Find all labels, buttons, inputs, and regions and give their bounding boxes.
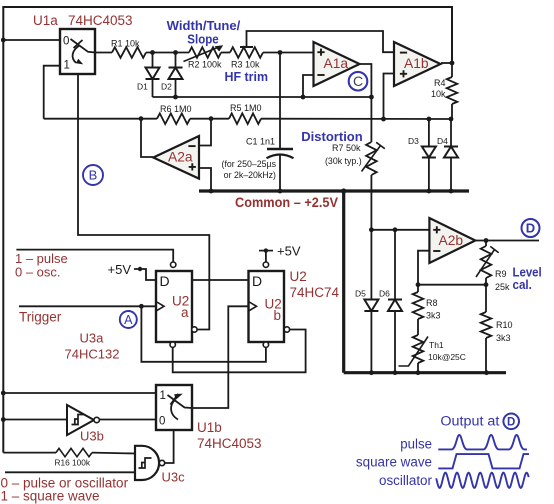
wire U3c output to U1b select xyxy=(165,430,174,463)
wire feedback loop from A1b output: top and left border xyxy=(3,7,452,453)
svg-text:R1 10k: R1 10k xyxy=(111,39,140,49)
svg-text:C1 1n1: C1 1n1 xyxy=(246,137,275,147)
wire A1a output down to R7 xyxy=(360,64,371,142)
svg-text:1 – square wave: 1 – square wave xyxy=(1,489,100,504)
svg-text:D2: D2 xyxy=(161,82,172,92)
svg-text:B: B xyxy=(89,168,98,183)
svg-text:a: a xyxy=(181,305,189,320)
svg-text:25k: 25k xyxy=(495,282,510,292)
svg-text:square wave: square wave xyxy=(356,455,432,470)
svg-text:U1a: U1a xyxy=(33,13,58,28)
diode D3 xyxy=(428,119,430,147)
main integrator line R6 R5 xyxy=(44,118,157,120)
svg-text:R3 10k: R3 10k xyxy=(231,60,260,70)
svg-text:R9: R9 xyxy=(495,269,507,279)
svg-text:U3b: U3b xyxy=(80,429,104,444)
wire A1b output xyxy=(441,62,452,64)
variable resistor R7 xyxy=(366,142,377,175)
node D2 top xyxy=(173,50,178,55)
svg-text:cal.: cal. xyxy=(513,277,532,292)
junction R6/R5 A2a inverting xyxy=(209,116,214,121)
wire A2a noninverting to common xyxy=(199,168,211,191)
resistor R8 xyxy=(417,285,419,292)
svg-text:1: 1 xyxy=(64,60,70,72)
wire A2b output xyxy=(475,240,539,242)
wire U1a output to R1 xyxy=(95,52,112,54)
junction node at U3b input xyxy=(1,417,6,422)
wire A1a inverting input xyxy=(303,75,313,97)
junction A2a+ xyxy=(209,189,214,194)
inverter U3b xyxy=(3,419,67,421)
wire A2a inverting input xyxy=(199,119,211,146)
svg-text:A2a: A2a xyxy=(168,150,193,165)
wire R3 wiper to A1b inverting input xyxy=(247,31,395,52)
junction D4 bottom xyxy=(449,189,454,194)
wire A1a feedback node line xyxy=(153,96,372,98)
nand gate U3c xyxy=(135,446,159,480)
svg-text:1: 1 xyxy=(160,390,166,402)
junction node at U1b input 1 xyxy=(1,391,6,396)
diode D2 xyxy=(175,53,177,68)
svg-text:Slope: Slope xyxy=(187,32,218,47)
flip-flop U2a box xyxy=(156,271,192,342)
svg-text:R7 50k: R7 50k xyxy=(332,143,361,153)
svg-text:(30k typ.): (30k typ.) xyxy=(325,156,362,166)
svg-text:D: D xyxy=(252,273,262,289)
junction D3 bottom xyxy=(427,189,432,194)
svg-text:0 – osc.: 0 – osc. xyxy=(15,265,61,280)
junction common drop xyxy=(341,188,346,193)
wire set line 1-pulse/0-osc xyxy=(16,250,173,262)
op-amp A2a (pointing left) xyxy=(153,136,199,179)
diode D6 xyxy=(394,230,396,300)
trimmer R3 xyxy=(230,47,263,58)
op-amp A2b xyxy=(429,218,475,263)
svg-text:D5: D5 xyxy=(355,289,366,299)
wire trigger xyxy=(19,305,156,307)
wire U1a input 0 xyxy=(3,39,60,41)
wire A2b + input line xyxy=(371,229,429,231)
svg-text:A: A xyxy=(124,313,133,327)
svg-text:D: D xyxy=(160,273,170,289)
svg-text:0: 0 xyxy=(159,415,165,427)
svg-text:74HC4053: 74HC4053 xyxy=(197,436,262,451)
resistor R5 xyxy=(229,113,261,124)
wire A1b noninverting input xyxy=(384,74,395,120)
wire A2b inverting input xyxy=(418,251,429,285)
resistor R10 xyxy=(485,285,487,312)
square waveform xyxy=(438,454,529,468)
svg-text:3k3: 3k3 xyxy=(426,311,441,321)
svg-text:R8: R8 xyxy=(426,298,438,308)
junction A2a output xyxy=(139,116,144,121)
svg-text:R4: R4 xyxy=(434,78,446,88)
oscillator waveform xyxy=(436,473,529,488)
junction A1a output riser xyxy=(369,95,374,100)
thick common vertical xyxy=(342,191,345,373)
svg-text:D6: D6 xyxy=(379,289,390,299)
+5V supply pin for U2b xyxy=(265,251,267,262)
thermistor Th1 xyxy=(417,319,419,335)
wire trigger to clear bus xyxy=(141,306,266,362)
wire A2b feedback node xyxy=(418,284,486,286)
wire U2a Q to U2b D xyxy=(192,279,249,281)
wire U1b input 1 xyxy=(3,392,156,394)
svg-text:+5V: +5V xyxy=(277,244,301,259)
switch U1b 74HC4053 xyxy=(156,385,192,430)
svg-text:74HC132: 74HC132 xyxy=(65,347,120,362)
svg-text:or 2k–20kHz): or 2k–20kHz) xyxy=(224,170,276,180)
node label C (circled) xyxy=(349,72,368,91)
node label D (circled) xyxy=(522,219,540,237)
op-amp A1a xyxy=(314,42,360,86)
junction C1 bottom xyxy=(278,189,283,194)
svg-text:Width/Tune/: Width/Tune/ xyxy=(167,18,241,33)
U2b clear pin circle xyxy=(263,342,268,347)
svg-text:D1: D1 xyxy=(137,82,148,92)
wire U1a common pin to U2a Qbar xyxy=(78,74,209,330)
junction A1a inverting tap xyxy=(301,95,306,100)
wire R5 to A1b/D3/D4 line xyxy=(261,118,451,120)
resistor R1 xyxy=(112,47,146,58)
svg-text:74HC74: 74HC74 xyxy=(290,285,340,300)
svg-text:74HC4053: 74HC4053 xyxy=(68,13,133,28)
svg-text:Th1: Th1 xyxy=(429,340,444,350)
svg-text:+5V: +5V xyxy=(108,262,132,277)
capacitor C1 xyxy=(279,53,281,150)
svg-text:R5 1M0: R5 1M0 xyxy=(230,103,262,113)
diode D4 xyxy=(450,119,452,147)
U2a clear pin circle xyxy=(170,342,175,347)
U2a set pin circle xyxy=(171,262,176,267)
resistor R4 xyxy=(451,63,453,77)
svg-text:A2b: A2b xyxy=(439,233,464,248)
U2b Qbar pin circle xyxy=(284,327,289,332)
resistor R2 (variable) xyxy=(189,47,221,58)
flip-flop U2b box xyxy=(249,271,285,342)
node label A (circled) xyxy=(120,311,137,328)
svg-text:R2 100k: R2 100k xyxy=(188,60,222,70)
svg-text:D3: D3 xyxy=(408,136,419,146)
svg-text:R10: R10 xyxy=(496,320,513,330)
diode D1 xyxy=(152,53,154,68)
svg-text:(for 250–25µs: (for 250–25µs xyxy=(222,159,277,169)
op-amp A1b xyxy=(394,42,441,86)
common rail xyxy=(199,189,469,192)
U2a Qbar pin circle xyxy=(192,327,197,332)
wire A2a output to node xyxy=(141,119,153,157)
junction D2 bottom xyxy=(173,95,178,100)
junction A1b + tap xyxy=(381,117,386,122)
svg-text:R6 1M0: R6 1M0 xyxy=(160,104,192,114)
node label D at output (circled) xyxy=(503,414,519,430)
wire R2 to R3 xyxy=(221,52,230,54)
svg-text:A1b: A1b xyxy=(404,56,429,71)
svg-text:Distortion: Distortion xyxy=(301,129,362,144)
wire R7 bottom through rail to A2b+ xyxy=(370,175,372,230)
svg-text:U3a: U3a xyxy=(80,331,105,346)
svg-text:Output at: Output at xyxy=(440,414,499,429)
svg-text:oscillator: oscillator xyxy=(379,473,432,488)
svg-text:0: 0 xyxy=(63,36,69,48)
bottom common rail xyxy=(344,371,506,374)
svg-text:R16 100k: R16 100k xyxy=(55,458,91,468)
+5V tap for U2a D xyxy=(134,269,156,280)
svg-text:b: b xyxy=(274,308,282,323)
resistor R16 xyxy=(3,452,56,454)
junction D3 top xyxy=(427,117,432,122)
junction R4 bottom / D4 top xyxy=(449,117,454,122)
node C1 tap xyxy=(278,50,283,55)
resistor R6 xyxy=(157,113,190,124)
svg-text:D4: D4 xyxy=(437,136,448,146)
svg-text:HF trim: HF trim xyxy=(225,69,269,84)
svg-text:C: C xyxy=(353,73,363,89)
svg-text:Trigger: Trigger xyxy=(19,310,62,325)
junction node at U1a input xyxy=(1,38,6,43)
svg-text:U1b: U1b xyxy=(197,420,222,435)
diode D5 xyxy=(370,230,372,300)
svg-text:10k@25C: 10k@25C xyxy=(428,352,466,362)
svg-text:A1a: A1a xyxy=(324,56,349,71)
node D1 top xyxy=(150,50,155,55)
switch U1a 74HC4053 xyxy=(60,29,95,74)
svg-text:Common – +2.5V: Common – +2.5V xyxy=(235,195,338,210)
wire U2a clear to lower bus from U2b Qbar xyxy=(173,330,306,373)
node label B (circled) xyxy=(83,165,103,185)
U2b set pin circle xyxy=(263,262,268,267)
wire R1 to R2 with diode taps xyxy=(146,52,189,54)
svg-text:D: D xyxy=(507,417,515,429)
svg-text:U2: U2 xyxy=(290,269,307,284)
svg-text:3k3: 3k3 xyxy=(496,333,511,343)
wire R3 to A1a noninverting input xyxy=(263,52,313,54)
svg-text:10k: 10k xyxy=(431,89,446,99)
wire U3b out to U1b input 0 xyxy=(99,419,156,421)
wire U1a pin 1 to integrator line xyxy=(44,66,60,119)
svg-text:U3c: U3c xyxy=(162,470,186,485)
svg-text:D: D xyxy=(526,221,535,236)
wire U2b clock from U1b output xyxy=(192,306,249,408)
pulse waveform xyxy=(438,435,527,449)
variable resistor R9 xyxy=(485,241,487,247)
wire U3c lower input xyxy=(5,471,135,473)
svg-text:pulse: pulse xyxy=(400,437,432,452)
